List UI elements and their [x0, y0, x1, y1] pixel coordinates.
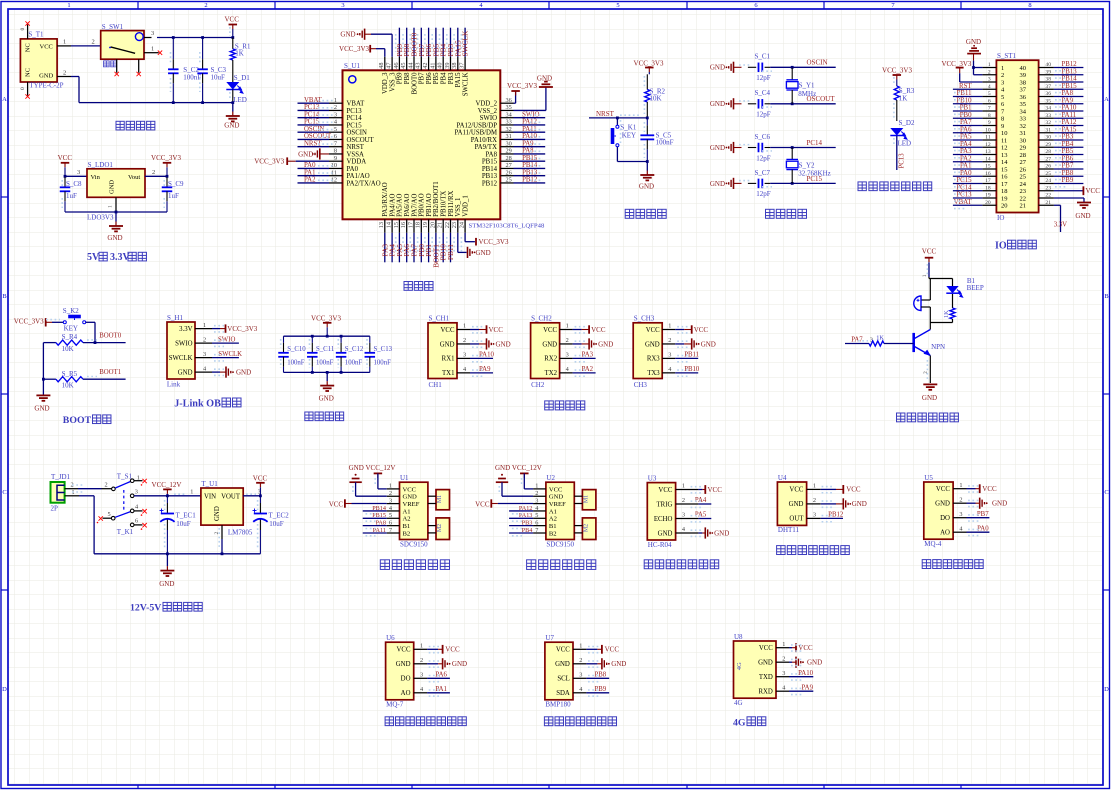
svg-text:1K: 1K: [876, 334, 884, 341]
SW1 bottom pin b: [138, 59, 140, 72]
U8 pin 1 (VCC): [776, 647, 789, 649]
svg-text:41: 41: [429, 63, 436, 69]
JD1 pin 1: [65, 495, 79, 497]
LED D2: [890, 128, 903, 136]
U1 pin 5 (A2): [387, 517, 400, 519]
ST1 left pin 17: [982, 183, 996, 185]
wire net PB12 from ST1 pin 40: [1054, 67, 1084, 69]
svg-text:34: 34: [506, 111, 513, 118]
svg-text:S_SW1: S_SW1: [102, 23, 124, 31]
svg-text:25: 25: [1020, 174, 1027, 181]
svg-text:9: 9: [988, 120, 991, 126]
frame row ticks: [1, 196, 8, 198]
svg-text:PA7: PA7: [851, 336, 863, 343]
svg-text:10K: 10K: [62, 345, 74, 353]
junction Y2 top: [791, 146, 794, 149]
T1 bottom pin: [27, 82, 29, 96]
svg-text:VCC: VCC: [329, 500, 344, 508]
wire net PB15 from U1 pin 28: [514, 160, 546, 162]
svg-text:12: 12: [1001, 145, 1008, 152]
svg-text:AO: AO: [401, 690, 411, 697]
svg-text:SWIO: SWIO: [175, 340, 192, 347]
svg-text:PC13: PC13: [956, 192, 972, 199]
wire U1 VSS_1 to GND: [457, 233, 459, 253]
svg-text:26: 26: [506, 169, 512, 176]
SW1 circle contact: [135, 33, 143, 41]
svg-text:AO: AO: [940, 530, 950, 537]
U2 pin 6 (B1): [533, 525, 546, 527]
wire U5 GND: [967, 502, 976, 504]
U1 left pin 6 (OSCOUT): [329, 138, 343, 140]
svg-text:VCC: VCC: [646, 327, 660, 334]
svg-text:GND: GND: [214, 506, 221, 521]
svg-text:PA4/AO: PA4/AO: [389, 194, 396, 217]
wire net PA0 (U5): [967, 531, 990, 533]
wire net PB9 (U7): [586, 692, 609, 694]
ST1 right pin 31: [1039, 132, 1054, 134]
wire CH3 GND: [675, 343, 684, 345]
wire net PA7 to ST1 pin 9: [953, 125, 983, 127]
wire U3 VCC: [698, 489, 702, 491]
wire alarm to Q1 collector: [929, 323, 931, 330]
ST1 left pin 8: [982, 117, 996, 119]
svg-text:5: 5: [108, 511, 111, 518]
svg-text:DO: DO: [940, 515, 950, 522]
svg-text:S_D2: S_D2: [899, 119, 915, 127]
JD1 pin 2: [65, 488, 78, 490]
wire net PA3 (CH2): [573, 357, 596, 359]
junction EC1 ground: [166, 552, 169, 555]
svg-text:GND: GND: [555, 661, 570, 668]
wire GND to U1 pin2: [355, 482, 357, 496]
svg-text:47: 47: [386, 63, 393, 69]
wire T1.GND down to ground bus: [71, 76, 79, 78]
svg-text:1: 1: [463, 323, 466, 330]
capacitor C10: [283, 336, 285, 343]
svg-text:S_C13: S_C13: [374, 346, 393, 353]
wire S1.3 to U1 VIN: [134, 495, 201, 497]
svg-text:100nF: 100nF: [183, 74, 201, 82]
ST1 right pin 36: [1039, 96, 1054, 98]
svg-text:15: 15: [393, 222, 400, 228]
svg-text:TX2: TX2: [545, 370, 558, 377]
svg-text:SWCLK: SWCLK: [169, 355, 193, 362]
svg-text:PC13: PC13: [899, 153, 906, 169]
svg-text:VCC_3V3: VCC_3V3: [311, 315, 341, 323]
svg-text:VCC: VCC: [922, 247, 937, 255]
U3 pin 2 (TRIG): [676, 503, 699, 505]
wire net PC14 to ST1 pin 18: [953, 190, 983, 192]
svg-text:2: 2: [535, 490, 538, 497]
svg-text:10uF: 10uF: [211, 74, 226, 82]
ST1 right pin 22: [1039, 197, 1054, 199]
svg-text:A2: A2: [549, 516, 557, 523]
capacitor C7: [758, 179, 760, 189]
svg-text:6: 6: [135, 518, 138, 525]
U3 pin 4 (GND): [676, 532, 699, 534]
svg-text:31: 31: [506, 133, 512, 140]
CH3 pin 3 (RX3): [662, 357, 675, 359]
connector CH2 body: [531, 323, 560, 379]
ST1 left pin 6: [982, 103, 996, 105]
svg-text:BOOT0: BOOT0: [411, 72, 418, 95]
svg-text:DHT11: DHT11: [778, 526, 800, 534]
svg-text:39: 39: [1020, 72, 1027, 79]
svg-text:M1: M1: [583, 495, 589, 503]
svg-text:GND: GND: [1075, 212, 1090, 220]
U8 pin 3 (TXD): [776, 676, 789, 678]
wire net PA1 to U1 pin 11: [298, 175, 330, 177]
svg-text:PB0/AO: PB0/AO: [419, 193, 426, 217]
U1 bottom pin 22 (PB11/RX): [450, 219, 452, 233]
wire net PC14 to U1 pin 3: [298, 117, 330, 119]
svg-text:43: 43: [415, 63, 422, 69]
svg-text:PB14: PB14: [482, 166, 498, 173]
U1 pin-1 indicator circle: [349, 76, 356, 83]
svg-text:2: 2: [566, 337, 569, 344]
svg-text:GND: GND: [645, 341, 660, 348]
wire VCC_3V3 to K2: [52, 321, 64, 323]
ST1 right pin 28: [1039, 154, 1054, 156]
SW1 pin 1 stub: [144, 52, 159, 54]
svg-text:B1: B1: [403, 523, 411, 530]
svg-text:2: 2: [463, 337, 466, 344]
junction NRST / R2 / C5: [646, 117, 649, 120]
svg-text:VCC: VCC: [475, 500, 490, 508]
U1 top pin 37 (SWCLK): [464, 57, 466, 71]
svg-text:1: 1: [203, 322, 206, 329]
svg-text:S_C6: S_C6: [755, 133, 771, 141]
junction Y1 top: [791, 66, 794, 69]
svg-text:39: 39: [1045, 69, 1051, 75]
svg-text:VCC: VCC: [549, 486, 563, 493]
U6 pin 1 (VCC): [414, 648, 427, 650]
LED D1: [232, 60, 234, 82]
motor driver U1 body: [400, 482, 428, 539]
svg-text:VCC: VCC: [694, 326, 709, 334]
U1 left pin 8 (VSSA): [329, 153, 343, 155]
svg-text:T_EC2: T_EC2: [269, 512, 290, 520]
svg-text:GND: GND: [236, 368, 251, 376]
U1 right pin 29 (PA8): [500, 153, 513, 155]
resistor 1K (alarm base): [869, 341, 884, 346]
svg-text:T_K1: T_K1: [117, 528, 134, 536]
svg-text:Vin: Vin: [91, 174, 101, 181]
alarm left vertical lower: [929, 307, 931, 323]
svg-text:PA5/AO: PA5/AO: [397, 194, 404, 217]
svg-text:SDC9150: SDC9150: [400, 541, 428, 549]
wire U1 VSS_2 to GND: [514, 109, 546, 111]
svg-text:PA8: PA8: [486, 151, 498, 158]
wire net PB3 to U1 pin 39: [450, 28, 452, 57]
caption 大气压检测模块: [544, 717, 553, 726]
svg-text:PA1: PA1: [960, 163, 971, 170]
svg-text:20: 20: [985, 200, 991, 206]
svg-text:PB15: PB15: [482, 159, 498, 166]
svg-text:D: D: [1104, 686, 1109, 693]
wire R4 left: [43, 342, 56, 344]
wire U8 GND: [789, 661, 792, 663]
wire net PB6 from ST1 pin 27: [1054, 161, 1084, 163]
svg-text:3: 3: [389, 497, 392, 504]
svg-text:GND: GND: [319, 394, 334, 402]
svg-text:18: 18: [985, 185, 991, 191]
svg-text:PB1: PB1: [960, 105, 972, 112]
svg-text:23: 23: [1020, 188, 1027, 195]
svg-text:VCC: VCC: [543, 327, 557, 334]
svg-text:33: 33: [1045, 113, 1051, 119]
svg-text:32: 32: [506, 126, 512, 133]
svg-text:VCC: VCC: [605, 646, 620, 654]
svg-text:42: 42: [422, 63, 429, 69]
svg-text:PA15: PA15: [455, 72, 462, 87]
U7 pin 1 (VCC): [573, 648, 586, 650]
capacitor C6: [758, 143, 760, 153]
svg-text:PB14: PB14: [372, 505, 386, 512]
svg-text:DO: DO: [401, 676, 411, 683]
wire net PA5 to U1 pin 15: [398, 233, 400, 262]
svg-text:U1: U1: [400, 474, 409, 482]
svg-text:100nF: 100nF: [287, 359, 305, 366]
svg-text:5: 5: [535, 512, 538, 519]
buzzer B1 body: [914, 296, 921, 311]
svg-text:29: 29: [506, 148, 512, 155]
svg-text:34: 34: [1020, 108, 1027, 115]
CH1 pin 4 (TX1): [457, 372, 470, 374]
svg-text:1: 1: [782, 641, 785, 648]
regulator LDO1 body: [87, 169, 145, 198]
ground symbol GND (U8): [792, 661, 796, 663]
svg-text:VCC: VCC: [58, 154, 73, 162]
junction Y2 bottom: [791, 182, 794, 185]
wire C7 to net PC15: [770, 182, 836, 184]
wire net PC13 to U1 pin 2: [298, 109, 330, 111]
svg-text:2P: 2P: [51, 504, 59, 512]
wire net PC15 to ST1 pin 17: [953, 183, 983, 185]
U1 bottom pin 24 (VDD_1): [464, 219, 466, 233]
svg-text:SDA: SDA: [556, 690, 570, 697]
svg-text:26: 26: [1020, 166, 1027, 173]
svg-text:GND: GND: [496, 340, 511, 348]
wire ST1 pin22 to GND: [1054, 197, 1084, 199]
svg-text:1K: 1K: [899, 95, 908, 103]
ground symbol GND (U7): [597, 663, 602, 665]
junction filter top VCC drop: [326, 335, 329, 338]
S1 pin 2 stub: [102, 488, 112, 490]
svg-text:PA0: PA0: [347, 166, 359, 173]
U1 left pin 12 (PA2/TX/AO): [329, 182, 343, 184]
svg-text:19: 19: [985, 193, 991, 199]
svg-text:40: 40: [437, 63, 444, 69]
wire net PB0 to U1 pin 18: [420, 233, 422, 262]
svg-text:0: 0: [20, 87, 26, 90]
wire net PA6 to U1 pin 16: [406, 233, 408, 262]
svg-text:2: 2: [92, 39, 95, 46]
header ST1 body: [996, 60, 1038, 212]
junction filter bottom C11: [311, 371, 314, 374]
wire net NRST to U1 pin 7: [298, 146, 330, 148]
regulator T_U1 body: [201, 488, 243, 525]
svg-text:PB11/RX: PB11/RX: [448, 191, 455, 217]
svg-text:VCC: VCC: [1086, 187, 1101, 195]
svg-text:PA9: PA9: [522, 140, 534, 147]
resistor R5: [56, 377, 83, 382]
U1 top pin 48 (VDD_3): [384, 57, 386, 71]
wire net PB13 from U1 pin 26: [514, 175, 546, 177]
wire ground bus bottom: [79, 102, 233, 104]
svg-text:B2: B2: [403, 530, 411, 537]
wire net PA11 from ST1 pin 33: [1054, 117, 1084, 119]
wire CH2 VCC: [573, 329, 582, 331]
svg-text:26: 26: [1045, 164, 1051, 170]
svg-text:10: 10: [1001, 130, 1008, 137]
svg-text:SCL: SCL: [557, 676, 569, 683]
svg-text:7: 7: [535, 527, 538, 534]
svg-text:B: B: [1104, 293, 1109, 300]
svg-text:TRIG: TRIG: [657, 501, 673, 508]
wire net PB9 to U1 pin 46: [398, 28, 400, 57]
K1b left wire and no-connect X: [103, 517, 112, 519]
svg-text:RST: RST: [959, 83, 972, 90]
svg-text:21: 21: [437, 222, 444, 228]
CH2 pin 1 (VCC): [560, 329, 573, 331]
connector T1 TYPE-C-2P body: [20, 39, 57, 82]
svg-text:32.768KHz: 32.768KHz: [798, 169, 830, 177]
svg-text:VCC: VCC: [556, 647, 570, 654]
junction IO pin1 GND: [972, 66, 975, 69]
ground symbol GND (buck): [166, 554, 168, 566]
junction R5 left: [42, 378, 45, 381]
U1 right pin 27 (PB14): [500, 167, 513, 169]
svg-text:VCC: VCC: [397, 647, 411, 654]
U1 left pin 5 (OSCIN): [329, 131, 343, 133]
svg-text:VDD_3: VDD_3: [382, 72, 389, 94]
module U5 body: [924, 482, 953, 539]
svg-text:14: 14: [1001, 159, 1008, 166]
svg-text:OSCIN: OSCIN: [347, 130, 367, 137]
wire net PB1 to U1 pin 19: [428, 233, 430, 262]
svg-text:GND: GND: [758, 660, 773, 667]
svg-text:PB8: PB8: [404, 72, 411, 84]
svg-text:GND: GND: [639, 183, 654, 191]
wire K2 to BOOT0 row: [86, 321, 95, 323]
module U4 body: [777, 482, 806, 525]
U1 top pin 45 (PB8): [406, 57, 408, 71]
resistor R1: [232, 38, 234, 49]
svg-text:VBAT: VBAT: [954, 199, 973, 206]
svg-text:PC14: PC14: [956, 184, 972, 191]
ST1 right pin 26: [1039, 168, 1054, 170]
wire net PB15 from ST1 pin 37: [1054, 88, 1084, 90]
svg-text:GND: GND: [710, 64, 725, 72]
svg-text:T_JD1: T_JD1: [51, 473, 71, 481]
svg-text:S_R5: S_R5: [62, 370, 78, 378]
motor connector M1 (U2): [582, 490, 596, 510]
junction K2/R4: [94, 341, 97, 344]
svg-text:VCC_3V3: VCC_3V3: [479, 238, 509, 246]
capacitor C3: [202, 38, 204, 60]
wire net PA10 from U1 pin 31: [514, 138, 546, 140]
wire net PA13 to U2 pin 5: [509, 517, 533, 519]
svg-text:GND: GND: [807, 659, 822, 667]
svg-text:GND: GND: [109, 180, 116, 194]
module U3 body: [647, 483, 675, 540]
U1 right pin 32 (PA11/USB/DM): [500, 131, 513, 133]
svg-text:1uF: 1uF: [168, 192, 179, 200]
svg-text:VCC_3V3: VCC_3V3: [14, 318, 44, 326]
svg-text:GND: GND: [396, 661, 411, 668]
U1 left pin 1 (VBAT): [329, 102, 343, 104]
ground symbol GND (LDO): [115, 212, 117, 222]
U7 pin 2 (GND): [573, 663, 586, 665]
ST1 right pin 40: [1039, 67, 1054, 69]
svg-text:1: 1: [67, 2, 70, 9]
svg-text:8: 8: [334, 148, 337, 155]
T1 GND pin stub: [57, 76, 71, 78]
ground symbol GND (alarm): [923, 384, 937, 389]
svg-text:12pF: 12pF: [756, 111, 771, 119]
U8 pin 4 (RXD): [776, 690, 789, 692]
svg-text:3: 3: [682, 512, 685, 519]
svg-text:22: 22: [1045, 193, 1051, 199]
svg-text:35: 35: [1045, 98, 1051, 104]
svg-text:KEY: KEY: [622, 131, 636, 139]
svg-text:S_Y1: S_Y1: [799, 82, 815, 90]
K1b pin4 wire and no-connect X: [134, 510, 143, 512]
wire U8 VCC: [789, 647, 792, 649]
svg-text:PC15: PC15: [956, 177, 972, 184]
svg-text:GND: GND: [710, 180, 725, 188]
svg-text:21: 21: [1020, 203, 1027, 210]
svg-text:PB7: PB7: [977, 511, 989, 518]
svg-text:1uF: 1uF: [66, 192, 77, 200]
ST1 left pin 1: [982, 67, 996, 69]
svg-text:TYPE-C-2P: TYPE-C-2P: [29, 82, 63, 90]
SW1 pin 3 stub: [144, 37, 152, 39]
svg-text:1K: 1K: [943, 310, 950, 318]
svg-text:4G: 4G: [734, 699, 743, 707]
U1 pin 2 (GND): [387, 495, 400, 497]
svg-text:S_CH1: S_CH1: [429, 315, 450, 323]
svg-text:11: 11: [985, 135, 991, 141]
svg-text:PA2: PA2: [304, 177, 316, 184]
power port VCC_3V3 at U1 VDD_3: [369, 45, 371, 53]
CH1 pin 3 (RX1): [457, 357, 470, 359]
svg-text:PA11: PA11: [1062, 112, 1077, 119]
wire net PB5 to U1 pin 41: [435, 28, 437, 57]
capacitor C12: [340, 336, 342, 343]
svg-text:SWIO: SWIO: [218, 336, 235, 343]
wire net PA9 from U1 pin 30: [514, 146, 546, 148]
wire C4 to net OSCOUT: [770, 103, 836, 105]
svg-text:39: 39: [444, 63, 451, 69]
U6 pin 4 (AO): [414, 692, 427, 694]
svg-text:PB3: PB3: [448, 72, 455, 84]
ST1 left pin 2: [982, 74, 996, 76]
svg-text:3.3V: 3.3V: [110, 252, 131, 263]
wire U1 VDD_2 to VCC_3V3: [514, 102, 516, 104]
wire net PA10 from ST1 pin 34: [1054, 110, 1084, 112]
ground symbol at U1 VSS_3: [360, 29, 365, 40]
U1 top pin 40 (PB4): [442, 57, 444, 71]
SW1 bottom pin b no-connect X: [137, 72, 141, 76]
svg-text:PB11: PB11: [957, 90, 972, 97]
svg-text:GND: GND: [549, 494, 564, 501]
svg-text:4G: 4G: [736, 662, 743, 670]
U1 left pin 9 (VDDA): [329, 160, 343, 162]
svg-text:19: 19: [422, 222, 429, 228]
svg-text:4: 4: [988, 84, 991, 90]
